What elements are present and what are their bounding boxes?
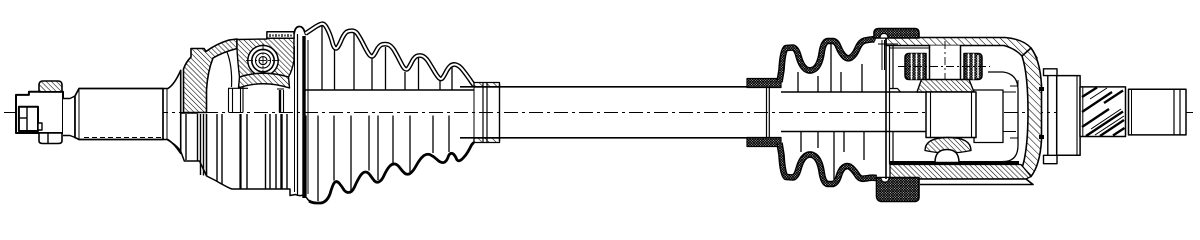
right joint housing bottom wall hatched [890,165,1031,180]
nut bottom [39,133,62,144]
shaft seat into right joint [781,92,928,132]
left shaft cylinder [75,89,163,140]
left stub block [16,92,63,133]
right boot small end collar and shaft step [747,79,781,147]
left joint bottom external profile [167,140,310,202]
right joint housing top wall [886,38,1037,64]
left CV joint housing wall (section, hatched) [184,39,238,113]
right boot fold verticals [798,44,864,180]
left joint housing flat top band and outer race [227,38,294,87]
boot clamp band on housing top [267,32,294,38]
nut hatched top [39,81,62,92]
clamp verticals [482,83,484,143]
shaft flare to left joint [163,70,181,153]
tripod right roller [964,54,982,80]
right boot bellows bottom (hatched wall) [780,143,877,184]
right joint housing right wall (dome) [1022,48,1042,177]
left boot fold verticals bottom [306,116,449,202]
right face ticks [1039,87,1044,139]
right joint top clamp [874,29,919,39]
left boot inner top line [303,89,474,91]
spider hub block [926,90,1003,143]
hatched dome under hub [925,138,971,154]
right stub washer tabs [1044,69,1058,164]
right stub spline section [1080,87,1126,137]
left boot bottom profile [309,143,474,204]
left boot top profile (double line) [306,24,475,86]
right joint housing bottom outer shell [890,163,1033,185]
left boot fold verticals top [322,26,452,90]
housing interior cavity line [975,72,1018,162]
centerline main axis [4,112,1196,114]
neck [63,96,75,138]
tripod spider hatched [917,80,974,93]
bottom trunnion ball dome [935,150,959,163]
right joint housing mouth verticals [878,38,901,179]
tripod left roller [905,54,926,80]
left boot small end collar [474,83,500,143]
left joint ball B1 [246,44,280,78]
right stub cylinder [1057,76,1080,156]
right joint bottom clamp [877,178,920,202]
right stub end cylinder [1129,89,1187,135]
right boot bellows top (hatched wall) [780,39,876,82]
left joint interior race verticals [180,87,284,113]
roller axis centerline [898,66,990,68]
middle shaft [460,87,767,138]
tripod trunnion block [930,41,961,99]
left joint inner race (hatched crescent) [239,73,290,88]
left joint bottom step verticals [186,34,308,198]
boot bead at housing right [294,27,306,36]
